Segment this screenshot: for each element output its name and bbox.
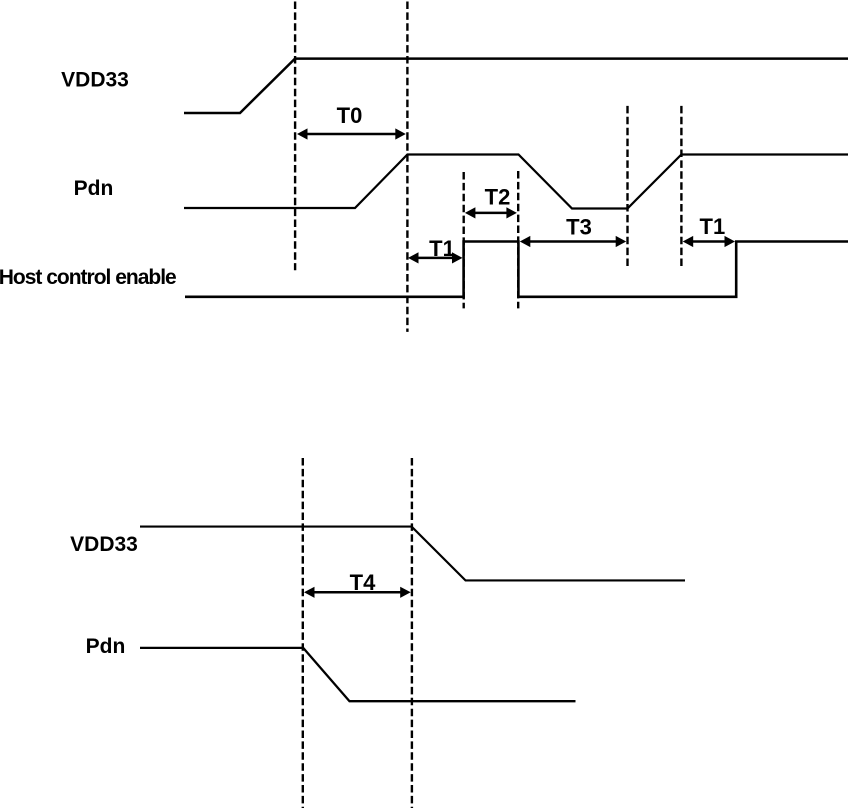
wire Pdn waveform (top) xyxy=(184,155,848,209)
node dashed line D (x=518) xyxy=(517,171,519,308)
svg-text:T1: T1 xyxy=(700,214,726,239)
node dashed line H (x=412) xyxy=(411,458,413,808)
svg-text:T0: T0 xyxy=(337,103,363,128)
svg-text:Pdn: Pdn xyxy=(86,635,126,658)
node dashed line F (x=681) xyxy=(680,106,682,269)
svg-text:Pdn: Pdn xyxy=(74,177,114,200)
wire Host control enable waveform xyxy=(185,242,848,297)
svg-text:VDD33: VDD33 xyxy=(70,533,138,556)
arrow T0 measure xyxy=(297,128,406,139)
node dashed line E (x=627) xyxy=(626,106,628,269)
arrow T1 second measure xyxy=(683,236,735,247)
wire Pdn waveform (bottom) xyxy=(140,648,576,701)
arrow T4 measure xyxy=(304,587,411,598)
node dashed line B (x=407) xyxy=(406,2,408,332)
arrow T2 measure xyxy=(465,207,517,218)
svg-text:Host control enable: Host control enable xyxy=(0,266,176,289)
svg-text:VDD33: VDD33 xyxy=(61,69,129,92)
arrow T3 measure xyxy=(520,236,626,247)
wire VDD33 waveform (top) xyxy=(184,59,848,113)
svg-text:T3: T3 xyxy=(566,215,592,240)
node dashed line G (x=303) xyxy=(302,458,304,808)
node dashed line C (x=464) xyxy=(463,172,465,308)
arrow T1 first measure xyxy=(408,252,463,263)
wire VDD33 waveform (bottom) xyxy=(140,527,685,581)
node dashed line A (x=295) xyxy=(294,2,296,271)
svg-text:T2: T2 xyxy=(485,185,511,210)
